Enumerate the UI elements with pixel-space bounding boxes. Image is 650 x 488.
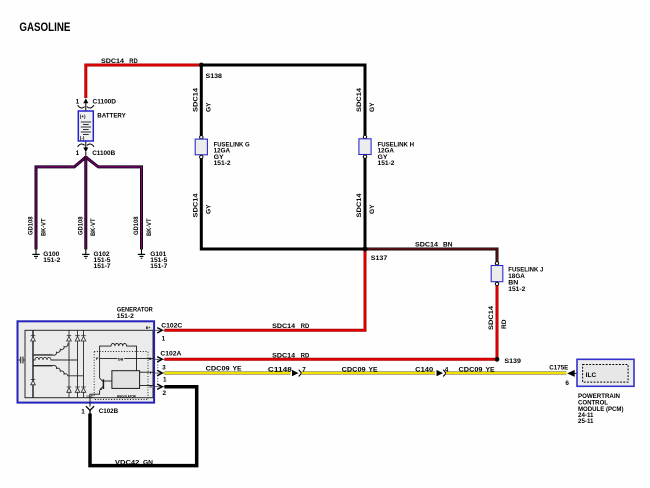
svg-text:S: S xyxy=(149,383,152,388)
label GENERATOR 151-2 xyxy=(117,306,153,319)
I line (generator) xyxy=(140,370,154,375)
svg-text:SDC14: SDC14 xyxy=(272,353,295,360)
wire GD108 BK-VT right branch xyxy=(86,157,142,249)
svg-text:A: A xyxy=(149,356,152,361)
label SDC14 RD rotated (J leg) xyxy=(488,305,508,330)
svg-text:151-7: 151-7 xyxy=(150,263,167,270)
connector C102C pin 1 xyxy=(155,322,183,342)
wire CDC09 YE segment 3 (yellow) xyxy=(446,372,567,375)
label FUSELINK H 12GA GY 151-2 xyxy=(378,142,415,167)
svg-text:I: I xyxy=(150,370,151,375)
wire GD108 BK-VT left branch xyxy=(36,157,86,249)
label FUSELINK G 12GA GY 151-2 xyxy=(214,142,250,167)
node S137 xyxy=(363,247,388,262)
wire SDC14 RD generator C102C to S137 (red) xyxy=(164,249,365,330)
wire SDC14 BN (brown) S137 to fuselink J xyxy=(365,249,497,262)
svg-text:CDC09: CDC09 xyxy=(342,367,366,374)
svg-text:REGULATOR: REGULATOR xyxy=(117,394,136,399)
svg-text:GY: GY xyxy=(369,102,376,112)
wire black left branch below fuselink G to bottom corner xyxy=(201,158,365,249)
wire black right branch below fuselink H to S137 xyxy=(364,158,367,249)
wire GD108 BK-VT middle branch xyxy=(84,156,87,249)
capacitor (generator) xyxy=(19,357,25,364)
label SDC14 GY rotated (right branch upper) xyxy=(356,87,376,112)
transistor Q (generator regulator) xyxy=(100,373,112,390)
connector C102A (dashed pin line) xyxy=(158,351,182,386)
connector C102B pin 1 (arrow) xyxy=(81,404,118,416)
svg-text:151-7: 151-7 xyxy=(94,263,111,270)
svg-text:GN: GN xyxy=(143,459,153,466)
svg-text:C1100D: C1100D xyxy=(93,99,117,106)
wire CDC09 YE segment 2 (yellow) xyxy=(302,372,436,375)
svg-text:GY: GY xyxy=(205,102,212,112)
label POWERTRAIN CONTROL MODULE (PCM) 24-11 25-11 xyxy=(578,393,624,425)
svg-text:SDC14: SDC14 xyxy=(192,193,199,218)
wire black top S138 to right branch xyxy=(201,65,365,136)
svg-text:BK-VT: BK-VT xyxy=(90,218,97,236)
svg-text:C1100B: C1100B xyxy=(92,150,115,157)
connector C140 inline (pin 4) xyxy=(415,367,449,377)
svg-text:C102C: C102C xyxy=(161,322,182,329)
wire SDC14 RD fuselink J to S139 (red vertical) xyxy=(496,286,499,360)
label SDC14 RD (C102A wire) xyxy=(272,353,310,360)
label CDC09 YE (seg 1) xyxy=(206,365,243,372)
label GD108 BK-VT rotated (right) xyxy=(133,216,153,236)
svg-text:C1148: C1148 xyxy=(268,367,293,374)
label SDC14 BN xyxy=(415,242,453,249)
diode line 1 (generator) xyxy=(31,330,36,397)
regulator dashed box (generator) xyxy=(94,352,148,400)
svg-text:151-2: 151-2 xyxy=(117,313,134,320)
label CDC09 YE (seg 3) xyxy=(459,367,496,374)
svg-text:C140: C140 xyxy=(415,367,434,374)
svg-text:BATTERY: BATTERY xyxy=(97,113,126,120)
svg-text:GASOLINE: GASOLINE xyxy=(19,22,70,34)
svg-text:BK-VT: BK-VT xyxy=(146,218,153,236)
ground G100 xyxy=(32,249,60,264)
svg-text:I LC: I LC xyxy=(87,394,94,398)
svg-text:SDC14: SDC14 xyxy=(356,87,363,112)
svg-text:(+): (+) xyxy=(80,114,86,119)
stator winding middle (generator) xyxy=(33,357,78,360)
svg-text:B+: B+ xyxy=(146,326,151,330)
svg-text:RD: RD xyxy=(301,323,310,330)
connector C102A pin 2 xyxy=(155,384,167,397)
svg-text:GD108: GD108 xyxy=(133,216,140,235)
svg-text:1: 1 xyxy=(163,377,167,384)
ground G102 xyxy=(82,249,111,270)
svg-text:C102B: C102B xyxy=(99,408,119,415)
field coil (generator) xyxy=(100,344,137,374)
S line (generator) xyxy=(140,383,154,388)
generator inner frame (rectifier bus) xyxy=(25,330,153,397)
svg-text:S138: S138 xyxy=(206,73,223,80)
svg-text:YE: YE xyxy=(486,367,496,374)
label FUSELINK J 18GA BN 151-2 xyxy=(508,267,543,294)
svg-text:GY: GY xyxy=(369,204,376,214)
diode line 4 (generator) xyxy=(81,330,86,397)
svg-text:2: 2 xyxy=(163,390,167,397)
svg-text:1: 1 xyxy=(76,150,80,157)
svg-text:GD108: GD108 xyxy=(28,216,35,235)
diode line 3 (generator) xyxy=(75,330,80,397)
wire SDC14 RD battery to S138 (red, top) xyxy=(86,65,202,98)
svg-text:151-2: 151-2 xyxy=(378,160,395,167)
generator box xyxy=(18,321,155,402)
svg-text:C175E: C175E xyxy=(549,365,569,372)
svg-text:(-): (-) xyxy=(80,136,85,141)
label SDC14 RD (C102C wire) xyxy=(272,323,310,330)
wire VDC42 GN (black loop) xyxy=(90,387,197,466)
svg-text:DB: DB xyxy=(118,356,124,361)
LC pin (generator) xyxy=(87,390,100,406)
svg-text:SDC14: SDC14 xyxy=(272,323,295,330)
svg-text:ILC: ILC xyxy=(586,372,597,379)
svg-text:GY: GY xyxy=(205,204,212,214)
node S139 xyxy=(495,357,522,365)
svg-text:BN: BN xyxy=(443,242,453,249)
fuselink H (fuse symbol) xyxy=(359,135,371,158)
connector C102A pin 3 xyxy=(155,357,167,372)
svg-text:VDC42: VDC42 xyxy=(115,459,140,466)
svg-text:CDC09: CDC09 xyxy=(206,365,230,372)
node S137 junction dot xyxy=(363,247,368,252)
connector C1100B pin 1 (arcs + arrow) xyxy=(76,142,116,158)
label VDC42 GN xyxy=(115,459,153,466)
diode line 2 (generator) xyxy=(67,330,72,397)
svg-text:SDC14: SDC14 xyxy=(192,87,199,112)
label SDC14 GY rotated (left branch lower) xyxy=(192,193,212,218)
svg-text:SDC14: SDC14 xyxy=(356,193,363,218)
label GD108 BK-VT rotated (middle) xyxy=(78,216,98,236)
stator winding top (generator) xyxy=(33,343,69,355)
wire CDC09 YE segment 1 (yellow) xyxy=(164,372,290,375)
svg-text:RD: RD xyxy=(501,319,508,329)
label SDC14 GY rotated (right branch lower) xyxy=(356,193,376,218)
svg-text:CDC09: CDC09 xyxy=(459,367,483,374)
wire SDC14 RD generator C102A to S139 (red) xyxy=(164,358,497,361)
svg-text:1: 1 xyxy=(162,336,166,343)
svg-text:1: 1 xyxy=(81,408,85,415)
label CDC09 YE (seg 2) xyxy=(342,367,379,374)
connector C1148 inline (pin 7) xyxy=(268,367,306,377)
svg-text:SDC14: SDC14 xyxy=(488,305,495,330)
node S138 xyxy=(199,63,223,80)
svg-text:BK-VT: BK-VT xyxy=(40,218,47,236)
svg-text:RD: RD xyxy=(301,353,310,360)
connector C1100D pin 1 (arrow + arcs) xyxy=(76,98,117,110)
label SDC14 RD (top) xyxy=(101,58,138,65)
regulator block (generator) xyxy=(112,371,140,399)
connector C102A pin 1 xyxy=(155,370,168,383)
F to A line (generator) xyxy=(96,356,154,361)
ground G101 xyxy=(138,249,168,270)
label GD108 BK-VT rotated (left) xyxy=(28,216,48,236)
fuselink J (fuse symbol) xyxy=(491,262,503,286)
battery symbol xyxy=(78,111,93,141)
svg-text:YE: YE xyxy=(369,367,379,374)
connector C175E pin 6 (arrow into PCM) xyxy=(549,365,577,387)
svg-text:25-11: 25-11 xyxy=(578,418,594,425)
svg-text:YE: YE xyxy=(233,365,243,372)
svg-text:SDC14: SDC14 xyxy=(415,242,438,249)
svg-text:SDC14: SDC14 xyxy=(101,58,124,65)
svg-text:151-2: 151-2 xyxy=(508,286,525,293)
svg-text:3: 3 xyxy=(162,364,166,371)
svg-text:RD: RD xyxy=(129,58,138,65)
svg-text:GD108: GD108 xyxy=(78,216,85,235)
svg-text:151-2: 151-2 xyxy=(214,160,231,167)
svg-text:6: 6 xyxy=(565,380,569,387)
svg-text:S137: S137 xyxy=(371,255,388,262)
label SDC14 GY rotated (left branch upper) xyxy=(192,87,212,112)
wire black left branch S138 down to fuselink G xyxy=(200,65,203,136)
fuselink G (fuse symbol) xyxy=(195,136,207,159)
svg-text:1: 1 xyxy=(76,99,80,106)
svg-text:S139: S139 xyxy=(504,358,521,365)
stator winding bottom (generator) xyxy=(33,365,84,375)
svg-text:151-2: 151-2 xyxy=(43,257,60,264)
svg-text:C102A: C102A xyxy=(160,351,181,358)
PCM box with ILC xyxy=(577,359,634,386)
